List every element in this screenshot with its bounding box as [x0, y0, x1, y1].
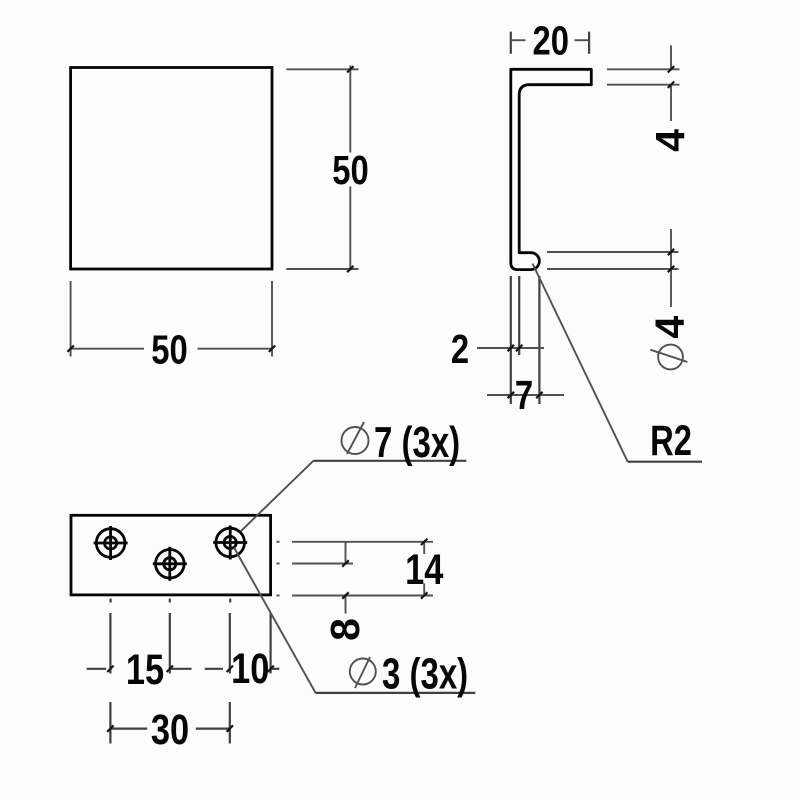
tick bottom of vertical 50	[347, 266, 353, 272]
diameter symbol dia7	[342, 427, 369, 454]
leader underline R2	[628, 461, 702, 463]
svg-text:7: 7	[515, 371, 533, 417]
svg-text:20: 20	[532, 17, 568, 63]
ticks 8 dim	[342, 560, 348, 566]
tick 2 right	[516, 345, 522, 351]
svg-text:8: 8	[322, 618, 368, 641]
hole 3 outer circle	[216, 528, 245, 557]
svg-text:30: 30	[151, 706, 189, 753]
hole 3 crosshair	[213, 541, 247, 544]
extension line right of top holes	[292, 541, 433, 543]
extension line below bead right (x=539)	[538, 276, 540, 404]
dimension line 30 segments	[110, 727, 147, 729]
diameter symbol of dia4 rotated	[658, 345, 683, 370]
dimension line 50 vertical lower segment	[349, 187, 351, 271]
svg-text:15: 15	[126, 646, 164, 693]
dimension line 8 upper outside segment	[345, 542, 347, 564]
svg-text:50: 50	[332, 146, 368, 192]
hole 2 inner circle	[164, 558, 176, 570]
extension line top right of square	[286, 68, 358, 70]
dimension line 4 upper outside segment	[670, 45, 672, 69]
bottom view plate	[71, 515, 271, 595]
extension bar right of 20 dim	[588, 32, 590, 54]
extension line below plate right edge	[270, 613, 272, 674]
side profile J-section	[511, 69, 592, 269]
dimension line 7	[487, 394, 564, 396]
leader line dia7	[241, 461, 314, 531]
hole 1 outer circle	[96, 529, 125, 558]
tick top of vertical 50	[347, 66, 353, 72]
extension line flange top right	[607, 68, 680, 70]
extension line below wall inner (x=519)	[518, 276, 520, 355]
tick bead bottom	[668, 266, 674, 272]
tick left of horizontal 50	[67, 346, 73, 352]
tick 2 left	[508, 345, 514, 351]
hole 3 inner circle	[224, 536, 236, 548]
tick 7 left	[508, 392, 514, 398]
hole 1 crosshair	[94, 542, 128, 545]
extension line bottom right-edge of square	[271, 281, 273, 357]
dimension line 20 left segment	[511, 39, 526, 41]
dimension line 14 segments	[423, 542, 425, 554]
dimension line 50 vertical upper segment	[349, 66, 351, 153]
extension line below hole1	[109, 613, 111, 674]
tick flange top	[668, 66, 674, 72]
ticks 15 dim	[107, 666, 113, 672]
ticks 14 dim	[421, 539, 427, 545]
extension line bead bottom	[547, 268, 679, 270]
leader underline dia7	[313, 460, 466, 462]
extension line bottom right of square	[286, 268, 358, 270]
extension line below wall outer (x=511)	[510, 276, 512, 404]
tick bead top	[668, 249, 674, 255]
dimension line 8 lower outside segment	[345, 596, 347, 614]
extension line right of middle hole	[292, 563, 353, 565]
leader underline dia3	[316, 692, 476, 694]
tick 7 right	[536, 392, 542, 398]
tick right of horizontal 50	[269, 346, 275, 352]
extension line right of plate bottom	[292, 595, 433, 597]
hole 2 outer circle	[156, 550, 185, 579]
front view square 50x50	[71, 68, 272, 270]
tick flange bottom	[668, 82, 674, 88]
leader line dia3	[234, 548, 316, 693]
extension line bottom left of square	[70, 281, 72, 357]
svg-text:4: 4	[647, 316, 693, 339]
dimension line 50 horizontal left segment	[71, 348, 144, 350]
dashes below plate	[109, 599, 111, 603]
extension bar left of 20 dim	[510, 32, 512, 54]
ticks 30 dim	[107, 725, 113, 731]
hole 1 inner circle	[105, 537, 117, 549]
hole 2 crosshair	[153, 562, 187, 565]
svg-text:2: 2	[451, 325, 469, 371]
extension dash stubs right of plate	[277, 541, 280, 543]
extension line below hole3	[229, 613, 231, 674]
svg-text:50: 50	[151, 326, 187, 372]
extension line bead top	[547, 251, 679, 253]
svg-text:14: 14	[405, 546, 444, 593]
svg-text:3 (3x): 3 (3x)	[382, 650, 468, 699]
leader line R2	[533, 264, 628, 462]
dimension line 2	[477, 347, 544, 349]
svg-text:10: 10	[231, 645, 269, 692]
dimension line 50 horizontal right segment	[198, 348, 273, 350]
dimension line 4 lower outside segment	[670, 85, 672, 121]
extension line below hole2	[169, 613, 171, 674]
extension line flange bottom right	[607, 84, 680, 86]
dimension line 20 right segment	[575, 39, 590, 41]
dimension line dia4 vertical	[670, 229, 672, 307]
dimension line 15/10 row segments	[87, 668, 107, 670]
svg-text:4: 4	[647, 129, 693, 152]
diameter symbol dia3	[350, 659, 376, 685]
svg-text:7 (3x): 7 (3x)	[374, 418, 460, 467]
svg-text:R2: R2	[650, 417, 692, 465]
ticks 10 dim	[227, 666, 233, 672]
